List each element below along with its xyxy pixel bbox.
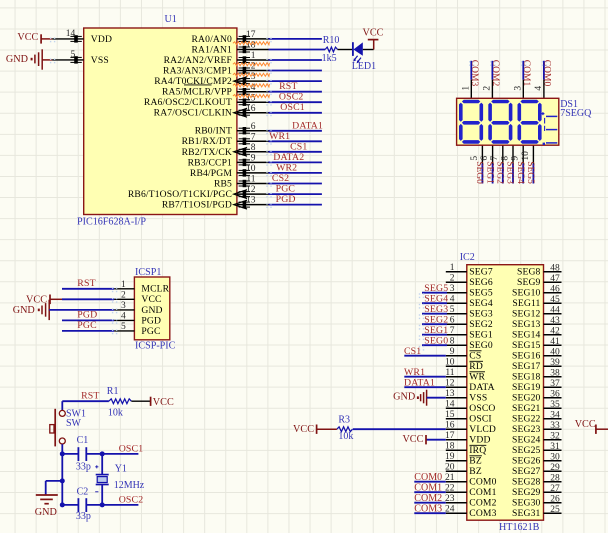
svg-text:SEG3: SEG3 xyxy=(469,309,493,320)
svg-text:CS1: CS1 xyxy=(290,142,307,153)
svg-text:8: 8 xyxy=(500,156,510,161)
svg-text:SEG2: SEG2 xyxy=(469,319,493,330)
svg-text:WR1: WR1 xyxy=(404,367,425,378)
svg-text:4: 4 xyxy=(450,295,455,305)
svg-text:7: 7 xyxy=(251,132,256,142)
svg-text:VCC: VCC xyxy=(293,424,314,435)
svg-text:43: 43 xyxy=(550,316,560,326)
svg-text:VCC: VCC xyxy=(26,295,47,306)
svg-text:39: 39 xyxy=(550,358,560,368)
svg-text:PGC: PGC xyxy=(77,320,97,331)
svg-text:DATA2: DATA2 xyxy=(273,152,304,163)
svg-text:COM1: COM1 xyxy=(414,482,442,493)
svg-text:OSC2: OSC2 xyxy=(279,92,304,103)
svg-text:22: 22 xyxy=(445,484,455,494)
svg-text:SEG2: SEG2 xyxy=(495,161,505,184)
svg-text:SEG21: SEG21 xyxy=(512,403,541,414)
svg-text:VSS: VSS xyxy=(91,55,109,66)
svg-text:6: 6 xyxy=(480,156,490,161)
svg-text:5: 5 xyxy=(71,50,76,60)
svg-text:RA1/AN1: RA1/AN1 xyxy=(192,44,233,55)
svg-text:6: 6 xyxy=(251,122,256,132)
svg-text:SEG15: SEG15 xyxy=(512,340,541,351)
svg-text:1: 1 xyxy=(251,51,256,61)
svg-text:17: 17 xyxy=(445,431,455,441)
svg-text:1: 1 xyxy=(461,86,471,91)
svg-text:16: 16 xyxy=(246,104,256,114)
svg-text:PGD: PGD xyxy=(77,310,97,321)
svg-text:RB1/RX/DT: RB1/RX/DT xyxy=(182,136,232,147)
svg-text:47: 47 xyxy=(550,274,560,284)
svg-text:3: 3 xyxy=(513,86,523,91)
svg-text:RST: RST xyxy=(77,278,95,289)
svg-text:COM2: COM2 xyxy=(414,493,442,504)
svg-text:SEG3: SEG3 xyxy=(424,304,448,315)
svg-text:33: 33 xyxy=(550,421,560,431)
svg-text:OSC1: OSC1 xyxy=(280,102,305,113)
svg-text:SEG26: SEG26 xyxy=(512,455,541,466)
svg-text:RA7/OSC1/CLKIN: RA7/OSC1/CLKIN xyxy=(154,108,232,119)
svg-text:PIC16F628A-I/P: PIC16F628A-I/P xyxy=(77,217,146,228)
svg-text:SEG20: SEG20 xyxy=(512,392,541,403)
svg-text:27: 27 xyxy=(550,484,560,494)
svg-text:VDD: VDD xyxy=(469,435,490,446)
svg-text:C2: C2 xyxy=(77,486,89,497)
svg-text:SEG0: SEG0 xyxy=(474,161,484,184)
svg-text:RA5/MCLR/VPP: RA5/MCLR/VPP xyxy=(162,87,232,98)
svg-text:VCC: VCC xyxy=(17,32,38,43)
svg-text:34: 34 xyxy=(550,411,560,421)
svg-text:IC2: IC2 xyxy=(460,252,475,263)
svg-text:COM2: COM2 xyxy=(490,60,500,87)
svg-text:9: 9 xyxy=(251,154,256,164)
svg-text:10: 10 xyxy=(246,164,256,174)
svg-text:23: 23 xyxy=(445,494,455,504)
svg-text:14: 14 xyxy=(66,29,76,39)
svg-text:PGD: PGD xyxy=(276,194,296,205)
svg-text:SEG24: SEG24 xyxy=(512,434,541,445)
svg-text:R3: R3 xyxy=(338,414,350,425)
svg-text:OSCO: OSCO xyxy=(469,403,495,414)
svg-text:19: 19 xyxy=(445,452,455,462)
svg-text:SEG13: SEG13 xyxy=(512,319,541,330)
svg-text:44: 44 xyxy=(550,306,560,316)
svg-text:SEG27: SEG27 xyxy=(512,466,541,477)
svg-text:BZ: BZ xyxy=(469,456,482,467)
svg-text:C1: C1 xyxy=(77,435,89,446)
svg-text:SEG5: SEG5 xyxy=(424,283,448,294)
svg-text:33p: 33p xyxy=(76,511,91,522)
svg-text:ICSP1: ICSP1 xyxy=(135,267,161,278)
svg-text:RA3/AN3/CMP1: RA3/AN3/CMP1 xyxy=(163,66,232,77)
svg-text:DATA: DATA xyxy=(469,382,494,393)
svg-text:CS2: CS2 xyxy=(272,173,289,184)
svg-text:SEG5: SEG5 xyxy=(525,161,535,184)
svg-text:25: 25 xyxy=(550,505,560,515)
svg-text:GND: GND xyxy=(393,392,415,403)
svg-text:SEG1: SEG1 xyxy=(484,161,494,184)
svg-text:WR: WR xyxy=(469,372,485,383)
svg-text:7: 7 xyxy=(490,156,500,161)
svg-text:RB0/INT: RB0/INT xyxy=(195,126,232,137)
svg-text:RST: RST xyxy=(81,391,99,402)
svg-text:OSCI: OSCI xyxy=(469,414,491,425)
svg-text:12: 12 xyxy=(246,185,256,195)
svg-text:24: 24 xyxy=(445,505,455,515)
svg-text:LED1: LED1 xyxy=(352,61,376,72)
svg-text:SEG12: SEG12 xyxy=(512,308,541,319)
svg-text:41: 41 xyxy=(550,337,560,347)
svg-text:IRQ: IRQ xyxy=(469,445,486,456)
svg-text:DATA1: DATA1 xyxy=(404,377,435,388)
svg-text:36: 36 xyxy=(550,390,560,400)
svg-text:18: 18 xyxy=(445,442,455,452)
svg-text:11: 11 xyxy=(246,175,255,185)
svg-text:SEG4: SEG4 xyxy=(515,161,525,184)
svg-text:PGD: PGD xyxy=(141,315,161,326)
svg-text:30: 30 xyxy=(550,453,560,463)
svg-text:SEG31: SEG31 xyxy=(512,508,541,519)
svg-text:VCC: VCC xyxy=(141,294,161,305)
svg-text:SEG10: SEG10 xyxy=(512,287,541,298)
svg-text:1: 1 xyxy=(121,280,126,290)
svg-text:SEG4: SEG4 xyxy=(424,294,448,305)
svg-text:3: 3 xyxy=(121,301,126,311)
svg-text:COM0: COM0 xyxy=(542,60,552,87)
svg-text:U1: U1 xyxy=(165,14,177,25)
svg-text:DATA1: DATA1 xyxy=(292,120,323,131)
svg-text:COM0: COM0 xyxy=(414,472,442,483)
svg-text:12: 12 xyxy=(445,379,455,389)
svg-text:SW: SW xyxy=(66,418,82,429)
svg-text:GND: GND xyxy=(13,305,35,316)
svg-text:28: 28 xyxy=(550,474,560,484)
svg-text:7SEGQ: 7SEGQ xyxy=(560,108,592,119)
svg-text:VSS: VSS xyxy=(469,393,487,404)
svg-text:RB5: RB5 xyxy=(214,178,232,189)
svg-text:OSC2: OSC2 xyxy=(119,494,144,505)
svg-text:SEG9: SEG9 xyxy=(517,277,541,288)
svg-text:SEG28: SEG28 xyxy=(512,476,541,487)
svg-text:RA0/AN0: RA0/AN0 xyxy=(192,34,233,45)
svg-text:SEG16: SEG16 xyxy=(512,350,541,361)
svg-text:Y1: Y1 xyxy=(115,464,127,475)
svg-text:13: 13 xyxy=(445,389,455,399)
svg-text:5: 5 xyxy=(121,322,126,332)
svg-text:1k5: 1k5 xyxy=(322,53,337,64)
svg-text:SEG4: SEG4 xyxy=(469,298,493,309)
svg-text:VLCD: VLCD xyxy=(469,424,496,435)
svg-text:20: 20 xyxy=(445,463,455,473)
svg-text:2: 2 xyxy=(482,86,492,91)
svg-text:CS1: CS1 xyxy=(404,346,421,357)
svg-text:PGC: PGC xyxy=(276,184,296,195)
svg-text:WR1: WR1 xyxy=(269,131,290,142)
svg-text:RB6/T1OSO/T1CKI/PGC: RB6/T1OSO/T1CKI/PGC xyxy=(128,189,232,200)
svg-text:VCC: VCC xyxy=(363,27,384,38)
svg-text:21: 21 xyxy=(445,473,455,483)
svg-text:WR2: WR2 xyxy=(276,163,297,174)
svg-text:SEG29: SEG29 xyxy=(512,487,541,498)
svg-text:10: 10 xyxy=(521,151,531,161)
svg-text:RB2/TX/CK: RB2/TX/CK xyxy=(182,147,232,158)
svg-text:15: 15 xyxy=(445,410,455,420)
svg-text:26: 26 xyxy=(550,495,560,505)
svg-text:10k: 10k xyxy=(108,407,123,418)
svg-text:RA6/OSC2/CLKOUT: RA6/OSC2/CLKOUT xyxy=(144,97,232,108)
svg-text:SEG30: SEG30 xyxy=(512,497,541,508)
svg-text:6: 6 xyxy=(450,316,455,326)
svg-text:COM2: COM2 xyxy=(469,498,496,509)
svg-text:COM0: COM0 xyxy=(469,477,496,488)
svg-text:MCLR: MCLR xyxy=(141,284,169,295)
svg-text:RD: RD xyxy=(469,361,483,372)
svg-text:COM3: COM3 xyxy=(414,503,442,514)
svg-text:CS: CS xyxy=(469,351,481,362)
svg-text:RB4/PGM: RB4/PGM xyxy=(190,168,232,179)
svg-text:SEG11: SEG11 xyxy=(512,298,540,309)
svg-text:GND: GND xyxy=(6,54,28,65)
svg-text:31: 31 xyxy=(550,442,560,452)
svg-text:42: 42 xyxy=(550,327,560,337)
svg-text:9: 9 xyxy=(511,156,521,161)
svg-text:SEG22: SEG22 xyxy=(512,413,541,424)
svg-text:9: 9 xyxy=(450,347,455,357)
svg-text:HT1621B: HT1621B xyxy=(499,522,540,533)
svg-text:8: 8 xyxy=(251,143,256,153)
svg-text:VCC: VCC xyxy=(153,397,174,408)
svg-text:SEG1: SEG1 xyxy=(424,325,448,336)
svg-text:SEG1: SEG1 xyxy=(469,330,493,341)
svg-text:VCC: VCC xyxy=(575,419,596,430)
svg-text:12MHz: 12MHz xyxy=(114,480,145,491)
svg-text:5: 5 xyxy=(450,305,455,315)
svg-text:PGC: PGC xyxy=(141,326,160,337)
svg-text:8: 8 xyxy=(450,337,455,347)
svg-text:SEG17: SEG17 xyxy=(512,361,541,372)
svg-text:R10: R10 xyxy=(323,35,340,46)
svg-text:7: 7 xyxy=(450,326,455,336)
svg-text:4: 4 xyxy=(534,86,544,91)
svg-text:SEG0: SEG0 xyxy=(424,336,448,347)
svg-text:ICSP-PIC: ICSP-PIC xyxy=(135,340,176,351)
svg-text:1: 1 xyxy=(450,263,455,273)
svg-text:46: 46 xyxy=(550,285,560,295)
svg-text:SEG5: SEG5 xyxy=(469,288,493,299)
svg-text:SEG7: SEG7 xyxy=(469,267,493,278)
svg-text:3: 3 xyxy=(450,284,455,294)
svg-text:2: 2 xyxy=(450,274,455,284)
svg-text:SEG3: SEG3 xyxy=(505,161,515,184)
svg-text:SEG25: SEG25 xyxy=(512,445,541,456)
svg-text:14: 14 xyxy=(445,400,455,410)
svg-text:RA2/AN2/VREF: RA2/AN2/VREF xyxy=(164,55,232,66)
svg-text:37: 37 xyxy=(550,379,560,389)
svg-text:13: 13 xyxy=(246,196,256,206)
svg-text:40: 40 xyxy=(550,348,560,358)
svg-text:BZ: BZ xyxy=(469,466,482,477)
svg-text:SEG8: SEG8 xyxy=(517,266,541,277)
svg-text:SEG14: SEG14 xyxy=(512,329,541,340)
svg-text:SEG6: SEG6 xyxy=(469,277,493,288)
svg-text:RB7/T1OSI/PGD: RB7/T1OSI/PGD xyxy=(162,200,232,211)
svg-text:COM3: COM3 xyxy=(469,508,496,519)
svg-text:SEG19: SEG19 xyxy=(512,382,541,393)
svg-text:RST: RST xyxy=(279,81,297,92)
svg-text:11: 11 xyxy=(445,368,454,378)
svg-text:SEG0: SEG0 xyxy=(469,340,493,351)
svg-text:GND: GND xyxy=(141,305,162,316)
svg-text:48: 48 xyxy=(550,264,560,274)
svg-text:2: 2 xyxy=(121,290,126,300)
svg-text:16: 16 xyxy=(445,421,455,431)
svg-text:4: 4 xyxy=(121,312,126,322)
svg-text:GND: GND xyxy=(35,507,57,518)
svg-text:29: 29 xyxy=(550,463,560,473)
svg-text:VDD: VDD xyxy=(91,34,112,45)
svg-text:RB3/CCP1: RB3/CCP1 xyxy=(188,157,232,168)
svg-text:COM1: COM1 xyxy=(521,60,531,87)
svg-text:SEG2: SEG2 xyxy=(424,315,448,326)
svg-text:COM1: COM1 xyxy=(469,487,496,498)
svg-text:38: 38 xyxy=(550,369,560,379)
svg-text:32: 32 xyxy=(550,432,560,442)
svg-text:10k: 10k xyxy=(338,431,353,442)
svg-text:5: 5 xyxy=(470,156,480,161)
svg-text:COM3: COM3 xyxy=(469,60,479,87)
svg-text:VCC: VCC xyxy=(402,434,423,445)
svg-text:10: 10 xyxy=(445,358,455,368)
svg-text:R1: R1 xyxy=(107,386,119,397)
svg-text:SEG18: SEG18 xyxy=(512,371,541,382)
svg-text:35: 35 xyxy=(550,400,560,410)
svg-text:SEG23: SEG23 xyxy=(512,424,541,435)
svg-text:OSC1: OSC1 xyxy=(119,443,144,454)
svg-text:33p: 33p xyxy=(76,462,91,473)
svg-text:45: 45 xyxy=(550,295,560,305)
svg-text:17: 17 xyxy=(246,30,256,40)
